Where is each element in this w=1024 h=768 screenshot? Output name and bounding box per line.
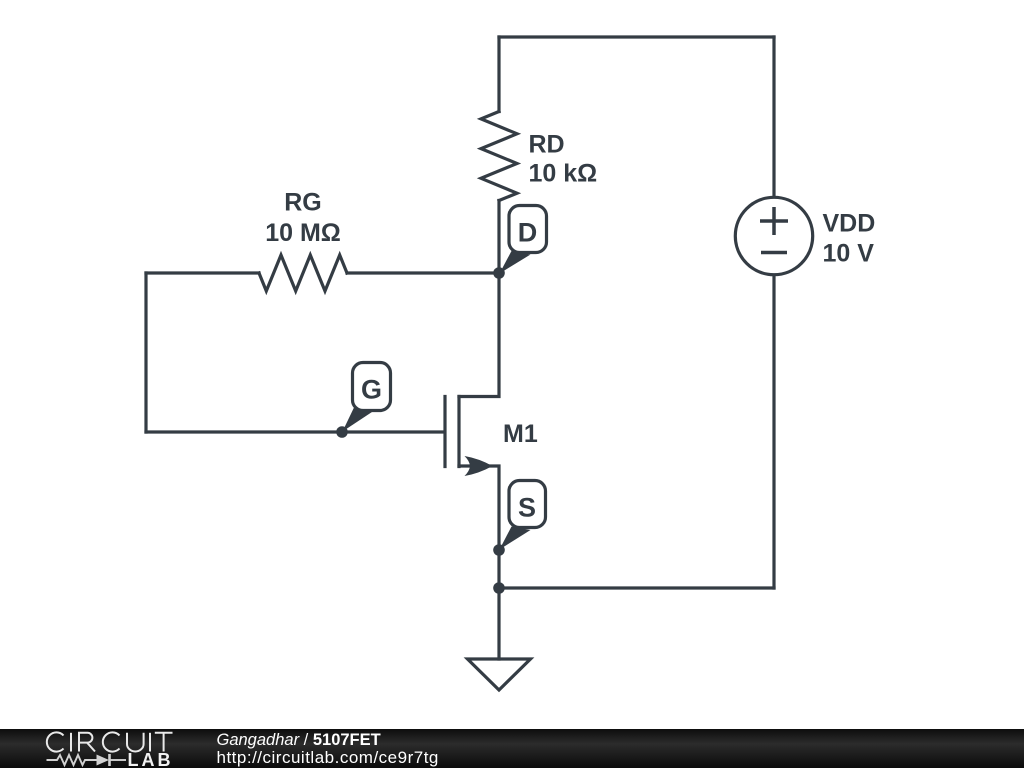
node label S xyxy=(500,481,546,550)
svg-text:RD: RD xyxy=(529,130,565,158)
label RG value xyxy=(265,189,341,248)
label RD value xyxy=(529,130,598,187)
junction dot node D xyxy=(493,267,505,279)
svg-text:M1: M1 xyxy=(503,420,538,448)
svg-text:http://circuitlab.com/ce9r7tg: http://circuitlab.com/ce9r7tg xyxy=(217,748,439,767)
svg-text:S: S xyxy=(518,493,536,523)
wire S node to junction xyxy=(497,550,500,588)
wire RD top lead xyxy=(497,37,500,112)
svg-text:RG: RG xyxy=(284,189,322,217)
wire VDD top lead xyxy=(772,37,775,196)
svg-text:10 kΩ: 10 kΩ xyxy=(529,159,598,187)
wire RD bottom lead to node D xyxy=(497,201,500,274)
footer bar xyxy=(0,729,1024,768)
transistor M1 source arrow xyxy=(465,456,493,476)
wire RG left lead xyxy=(146,271,259,274)
wire left rail xyxy=(144,273,147,432)
CircuitLab logo circuit squiggle xyxy=(47,754,127,766)
wire gate lead xyxy=(146,430,444,433)
svg-text:LAB: LAB xyxy=(128,750,174,768)
junction dot bottom rail xyxy=(493,582,505,594)
CircuitLab logo CIRCUIT wordmark xyxy=(47,732,173,751)
voltage source VDD xyxy=(735,197,812,274)
wire top rail xyxy=(499,35,774,38)
svg-text:D: D xyxy=(518,218,538,248)
wire RG right lead to node D xyxy=(347,271,499,274)
wire M1 drain connection xyxy=(459,273,499,397)
wire M1 source connection xyxy=(459,466,499,550)
svg-text:G: G xyxy=(361,374,382,404)
resistor RD xyxy=(481,112,517,201)
wire VDD bottom lead xyxy=(772,276,775,588)
svg-text:10 MΩ: 10 MΩ xyxy=(265,219,341,247)
node label D xyxy=(500,206,547,274)
wire ground lead xyxy=(497,588,500,659)
wire bottom rail xyxy=(499,586,774,589)
svg-text:VDD: VDD xyxy=(823,209,876,237)
junction dot gate xyxy=(336,426,348,438)
transistor M1 channel bar xyxy=(457,397,460,467)
junction dot node S xyxy=(493,544,505,556)
transistor M1 gate bar xyxy=(443,397,446,467)
resistor RG xyxy=(259,255,347,291)
svg-text:10 V: 10 V xyxy=(823,239,875,267)
label VDD value xyxy=(823,209,876,267)
ground symbol xyxy=(468,659,531,690)
svg-text:Gangadhar / 5107FET: Gangadhar / 5107FET xyxy=(217,731,381,749)
node label G xyxy=(343,363,391,432)
